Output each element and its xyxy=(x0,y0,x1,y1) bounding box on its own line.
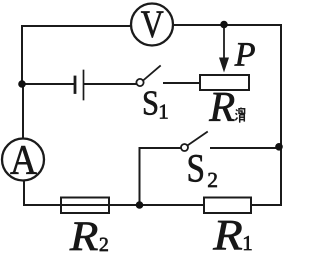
svg-text:S: S xyxy=(186,145,205,190)
svg-text:R: R xyxy=(69,214,99,253)
svg-text:2: 2 xyxy=(99,234,109,253)
svg-text:R: R xyxy=(212,211,243,253)
svg-text:1: 1 xyxy=(158,100,169,124)
svg-text:2: 2 xyxy=(207,168,218,192)
svg-text:R: R xyxy=(208,84,235,131)
svg-text:1: 1 xyxy=(242,231,253,253)
svg-text:A: A xyxy=(10,138,38,184)
svg-text:S: S xyxy=(142,83,159,122)
svg-text:P: P xyxy=(234,37,256,74)
svg-text:V: V xyxy=(141,3,164,46)
